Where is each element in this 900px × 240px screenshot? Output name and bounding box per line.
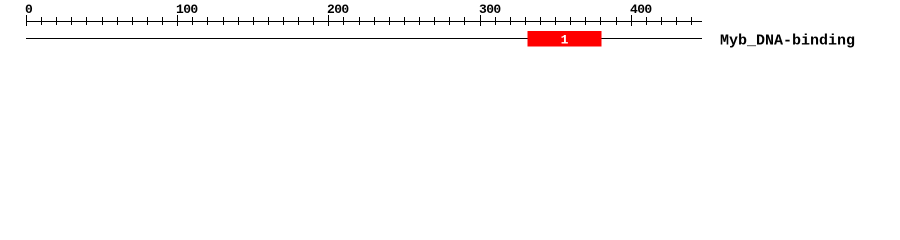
ruler tick 50 <box>102 17 103 25</box>
ruler tick 60 <box>117 17 118 25</box>
ruler tick 110 <box>192 17 193 25</box>
ruler tick 340 <box>540 17 541 25</box>
svg-text:1: 1 <box>561 33 569 48</box>
domain box Myb_DNA-binding (hit 1) <box>528 31 602 47</box>
ruler tick 220 <box>359 17 360 25</box>
ruler tick 30 <box>71 17 72 25</box>
ruler tick 260 <box>419 17 420 25</box>
ruler tick 370 <box>585 17 586 25</box>
ruler tick 350 <box>555 17 556 25</box>
ruler tick 170 <box>283 17 284 25</box>
ruler tick 360 <box>570 17 571 25</box>
ruler tick 330 <box>525 17 526 25</box>
ruler tick 120 <box>207 17 208 25</box>
ruler tick 300 (major) <box>480 15 481 26</box>
svg-text:400: 400 <box>630 2 652 17</box>
ruler tick 200 (major) <box>328 15 329 26</box>
ruler baseline <box>26 21 702 22</box>
ruler tick 100 (major) <box>177 15 178 26</box>
ruler tick 390 <box>616 17 617 25</box>
ruler tick 410 <box>646 17 647 25</box>
ruler tick 380 <box>600 17 601 25</box>
ruler tick 240 <box>389 17 390 25</box>
ruler tick 130 <box>223 17 224 25</box>
ruler tick 160 <box>268 17 269 25</box>
ruler tick 40 <box>86 17 87 25</box>
ruler tick 150 <box>253 17 254 25</box>
ruler tick 280 <box>449 17 450 25</box>
svg-text:0: 0 <box>25 2 33 17</box>
svg-text:300: 300 <box>479 2 501 17</box>
ruler tick 290 <box>464 17 465 25</box>
ruler tick 70 <box>132 17 133 25</box>
ruler tick 210 <box>343 17 344 25</box>
ruler tick 420 <box>661 17 662 25</box>
ruler tick 10 <box>41 17 42 25</box>
ruler tick 400 (major) <box>631 15 632 26</box>
ruler tick 80 <box>147 17 148 25</box>
svg-text:100: 100 <box>176 2 198 17</box>
ruler tick 20 <box>56 17 57 25</box>
ruler tick 250 <box>404 17 405 25</box>
ruler tick 180 <box>298 17 299 25</box>
ruler tick 90 <box>162 17 163 25</box>
ruler tick 0 (major) <box>26 15 27 26</box>
ruler tick 440 <box>691 17 692 25</box>
sequence line <box>26 38 702 39</box>
ruler tick 430 <box>676 17 677 25</box>
svg-text:Myb_DNA-binding: Myb_DNA-binding <box>720 33 855 50</box>
ruler tick 310 <box>495 17 496 25</box>
svg-text:200: 200 <box>327 2 349 17</box>
ruler tick 230 <box>374 17 375 25</box>
ruler tick 190 <box>313 17 314 25</box>
ruler tick 320 <box>510 17 511 25</box>
ruler tick 270 <box>434 17 435 25</box>
ruler tick 140 <box>238 17 239 25</box>
background <box>0 0 900 58</box>
